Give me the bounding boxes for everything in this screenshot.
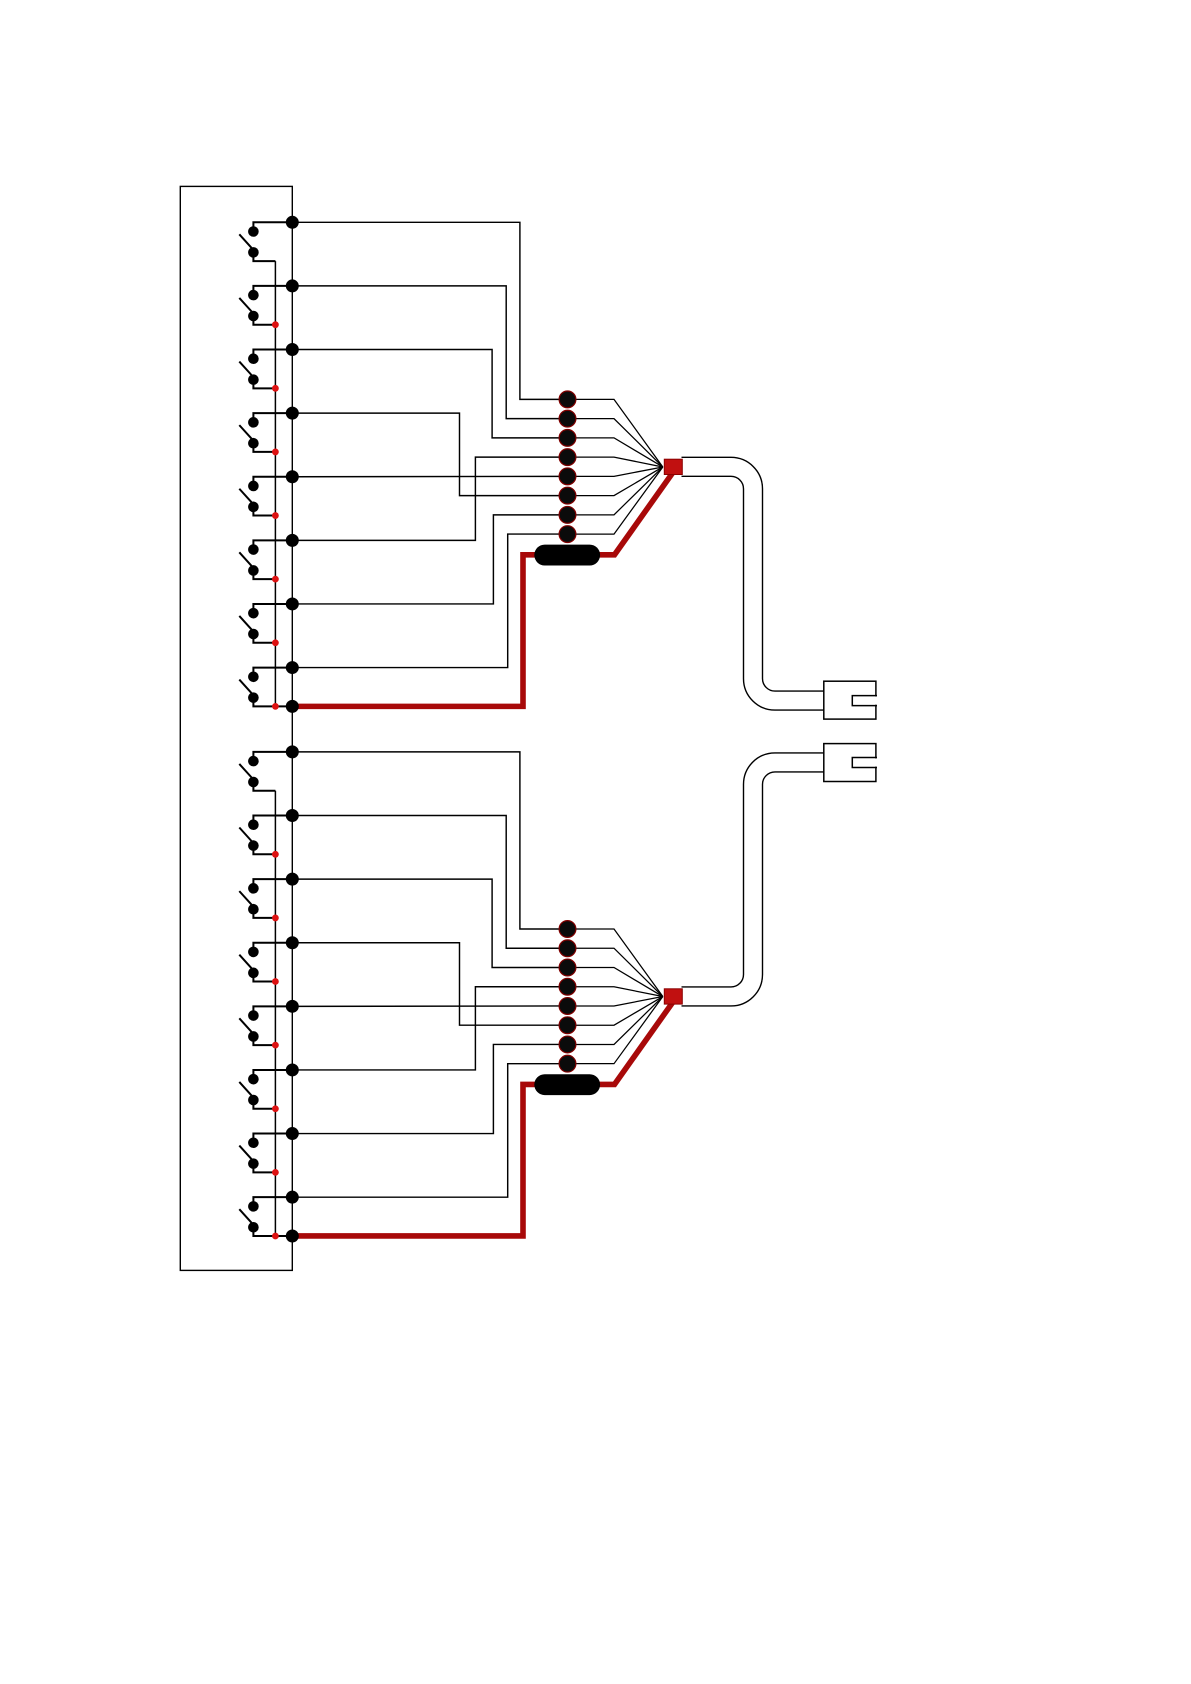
switch S28 [239, 1197, 292, 1236]
bus junction node at switch S17 [286, 597, 299, 610]
connector P1 body [824, 681, 876, 719]
bus junction node at switch S11 [286, 216, 299, 229]
switch S15 [239, 477, 292, 516]
header J2 pin 1 pad [559, 921, 576, 938]
switch S13 [239, 350, 292, 389]
header J1 pin 7 pad [559, 506, 576, 523]
wire: header J1 pin 6 to hub square [568, 467, 663, 496]
wire: header J1 pin 7 to hub square [568, 467, 663, 515]
connector P2 keying notch [853, 758, 878, 766]
switch panel enclosure box (right edge is common bus) [180, 186, 292, 1270]
cable sheath tube from hub J2 to connector P2 (white core) [682, 762, 825, 996]
wire: switch S26 node to header J2 pin 4 [292, 987, 567, 1070]
wire: switch S22 node to header J2 pin 2 [292, 816, 567, 949]
bus junction node: common return (group 2) [286, 1229, 299, 1242]
bus junction node at switch S12 [286, 279, 299, 292]
header J2 pin 3 pad [559, 959, 576, 976]
bus junction node at switch S23 [286, 873, 299, 886]
wire: switch S25 node to header J2 pin 5 [292, 1005, 567, 1007]
hub node square (group 1) [664, 459, 682, 474]
wire: header J2 pin 4 to hub square [568, 987, 663, 997]
wire: header J2 pin 8 to hub square [568, 997, 663, 1064]
bus junction node at switch S22 [286, 809, 299, 822]
cable bundle pill marker (group 2) [534, 1074, 600, 1095]
bus junction node at switch S16 [286, 534, 299, 547]
junction dot: switch S18 output on common wire [272, 703, 279, 710]
wire: switch S28 node to header J2 pin 8 [292, 1064, 567, 1197]
junction dot: switch S13 output on common wire [272, 385, 279, 392]
switch S11 [239, 222, 292, 261]
junction dot: switch S16 output on common wire [272, 576, 279, 583]
wire: header J1 pin 4 to hub square [568, 457, 663, 467]
header J2 pin 7 pad [559, 1036, 576, 1053]
junction dot: switch S24 output on common wire [272, 978, 279, 985]
wire: switch S16 node to header J1 pin 4 [292, 457, 567, 540]
header J2 pin 8 pad [559, 1055, 576, 1072]
wire: switch S13 node to header J1 pin 3 [292, 350, 567, 438]
wire: header J2 pin 5 to hub square [568, 997, 663, 1006]
header J1 pin 4 pad [559, 449, 576, 466]
wire: switch S23 node to header J2 pin 3 [292, 879, 567, 967]
bus junction node at switch S21 [286, 745, 299, 758]
switch S22 [239, 816, 292, 855]
junction dot: switch S27 output on common wire [272, 1169, 279, 1176]
bus junction node: common return (group 1) [286, 700, 299, 713]
bus junction node at switch S28 [286, 1191, 299, 1204]
wire: header J1 pin 2 to hub square [568, 419, 663, 467]
header J1 pin 1 pad [559, 391, 576, 408]
switch S14 [239, 413, 292, 452]
header J2 pin 4 pad [559, 978, 576, 995]
wire: switch S11 node to header J1 pin 1 [292, 222, 567, 399]
bus junction node at switch S26 [286, 1063, 299, 1076]
header J1 pin 3 pad [559, 429, 576, 446]
wire: switch S24 node to header J2 pin 6 [292, 943, 567, 1025]
net COMMON2: thick red wire from bus to hub square [292, 1000, 674, 1236]
wire: header J2 pin 6 to hub square [568, 997, 663, 1026]
junction dot: switch S14 output on common wire [272, 449, 279, 456]
junction dot: switch S23 output on common wire [272, 915, 279, 922]
wire: switch S12 node to header J1 pin 2 [292, 286, 567, 419]
net COMMON1: thick red wire from bus to hub square [292, 471, 674, 707]
switch S24 [239, 943, 292, 982]
header J1 pin 5 pad [559, 468, 576, 485]
wire: switch S18 node to header J1 pin 8 [292, 534, 567, 667]
wire: switch S27 node to header J2 pin 7 [292, 1044, 567, 1133]
wire: header J1 pin 1 to hub square [568, 399, 663, 467]
switch S26 [239, 1070, 292, 1109]
switch S18 [239, 668, 292, 707]
bus junction node at switch S27 [286, 1127, 299, 1140]
header J2 pin 5 pad [559, 998, 576, 1015]
wire: header J1 pin 5 to hub square [568, 467, 663, 476]
wire: header J1 pin 8 to hub square [568, 467, 663, 534]
bus junction node at switch S13 [286, 343, 299, 356]
junction dot: switch S22 output on common wire [272, 851, 279, 858]
cable sheath tube from hub J2 to connector P2 (outline) [682, 762, 824, 996]
cable sheath tube from hub J1 to connector P1 (white core) [682, 467, 825, 701]
switch S27 [239, 1134, 292, 1173]
bus junction node at switch S18 [286, 661, 299, 674]
switch S12 [239, 286, 292, 325]
common return wire of switch column (x=275.4) [274, 261, 276, 706]
header J2 pin 2 pad [559, 940, 576, 957]
wire: header J2 pin 1 to hub square [568, 929, 663, 997]
junction dot: switch S12 output on common wire [272, 321, 279, 328]
hub node square (group 2) [664, 989, 682, 1004]
bus junction node at switch S15 [286, 470, 299, 483]
header J1 pin 8 pad [559, 526, 576, 543]
junction dot: switch S28 output on common wire [272, 1233, 279, 1240]
bus junction node at switch S14 [286, 407, 299, 420]
junction dot: switch S25 output on common wire [272, 1042, 279, 1049]
wire: header J1 pin 3 to hub square [568, 438, 663, 467]
connector P2 body [824, 744, 876, 782]
header J2 pin 6 pad [559, 1017, 576, 1034]
junction dot: switch S26 output on common wire [272, 1105, 279, 1112]
wire: switch S15 node to header J1 pin 5 [292, 475, 567, 477]
junction dot: switch S15 output on common wire [272, 512, 279, 519]
header J1 pin 2 pad [559, 410, 576, 427]
bus junction node at switch S24 [286, 936, 299, 949]
bus junction node at switch S25 [286, 1000, 299, 1013]
connector P1 keying notch [853, 697, 878, 705]
wire: switch S21 node to header J2 pin 1 [292, 752, 567, 929]
common return wire of switch column (x=275.4) [274, 791, 276, 1236]
wire: header J2 pin 2 to hub square [568, 948, 663, 996]
switch S23 [239, 879, 292, 918]
wire: switch S17 node to header J1 pin 7 [292, 515, 567, 604]
cable sheath tube from hub J1 to connector P1 (outline) [682, 467, 824, 701]
cable bundle pill marker (group 1) [534, 545, 600, 566]
wire: switch S14 node to header J1 pin 6 [292, 413, 567, 495]
header J1 pin 6 pad [559, 487, 576, 504]
wire: header J2 pin 3 to hub square [568, 967, 663, 996]
switch S17 [239, 604, 292, 643]
switch S25 [239, 1006, 292, 1045]
switch S16 [239, 540, 292, 579]
junction dot: switch S17 output on common wire [272, 639, 279, 646]
wire: header J2 pin 7 to hub square [568, 997, 663, 1045]
switch S21 [239, 752, 292, 791]
